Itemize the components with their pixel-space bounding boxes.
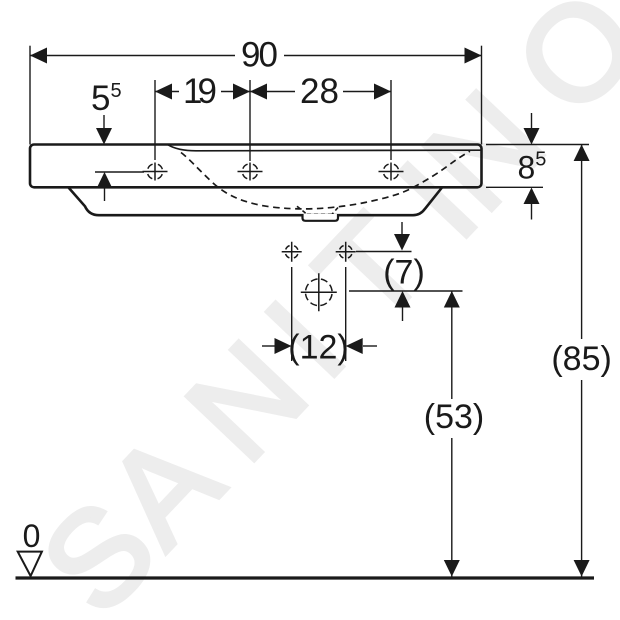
extension line fixing hole right	[345, 267, 347, 361]
basin pedestal body	[69, 188, 443, 216]
svg-text:(53): (53)	[424, 398, 484, 436]
extension line right of 90	[481, 46, 483, 145]
dimension (53) top arrow	[444, 291, 460, 308]
line fixing holes level	[356, 251, 412, 253]
basin bowl hidden contour (dashed)	[181, 151, 470, 209]
dimension (12) left arrow	[262, 338, 292, 354]
svg-text:(12): (12)	[288, 329, 348, 367]
dimension (85) line	[581, 145, 583, 577]
faucet hole 3 crosshair	[379, 163, 404, 181]
dimension 19 line	[155, 91, 391, 93]
faucet hole 1 crosshair	[143, 163, 168, 181]
dimension 19 right arrow	[233, 84, 250, 100]
extension line hole 2	[249, 80, 251, 161]
dimension (85) top arrow	[574, 145, 590, 162]
extension line hole 3	[390, 80, 392, 160]
dimension 5.5 top arrow	[96, 115, 112, 145]
svg-text:19: 19	[183, 72, 217, 111]
basin outline rectangle	[30, 145, 482, 188]
siphon hole crosshair	[301, 273, 337, 311]
svg-text:28: 28	[300, 72, 339, 111]
extension line fixing hole left	[291, 267, 293, 361]
fixing hole right crosshair	[336, 242, 356, 262]
dimension 90 left arrow	[30, 48, 47, 64]
dimension (53) line	[451, 291, 453, 577]
fixing hole left crosshair	[282, 242, 302, 262]
dimension 28 left arrow	[250, 84, 267, 100]
dimension 28 right arrow	[374, 84, 391, 100]
floor line	[16, 576, 595, 579]
basin inner rim line	[168, 145, 481, 151]
dimension (12) right arrow	[346, 338, 377, 354]
svg-text:0: 0	[23, 518, 41, 554]
dimension (7) bottom arrow	[395, 291, 411, 321]
line hole centre level	[95, 171, 144, 173]
extension line left of 90	[29, 46, 31, 145]
drain outlet bump	[303, 214, 339, 221]
faucet hole 2 crosshair	[238, 163, 263, 181]
dimension 8.5 top arrow	[524, 113, 540, 145]
extension line basin bottom right	[486, 186, 543, 188]
extension line basin top right	[486, 144, 589, 146]
line siphon level	[349, 290, 463, 292]
svg-text:90: 90	[241, 35, 278, 74]
svg-text:(85): (85)	[551, 340, 611, 378]
dimension (53) bottom arrow	[444, 560, 460, 577]
svg-text:55: 55	[91, 79, 122, 118]
dimension 19 left arrow	[155, 84, 172, 100]
dimension 90 right arrow	[465, 48, 482, 64]
dimension 8.5 bottom arrow	[524, 188, 540, 220]
extension line hole 1	[154, 80, 156, 160]
drain hidden lines (dashed)	[297, 206, 338, 214]
datum triangle	[18, 552, 42, 576]
dimension (7) top arrow	[394, 222, 410, 251]
dimension 90 line	[30, 55, 482, 57]
svg-text:(7): (7)	[383, 254, 425, 292]
dimension 5.5 bottom arrow	[97, 172, 113, 201]
dimension (85) bottom arrow	[574, 560, 590, 577]
